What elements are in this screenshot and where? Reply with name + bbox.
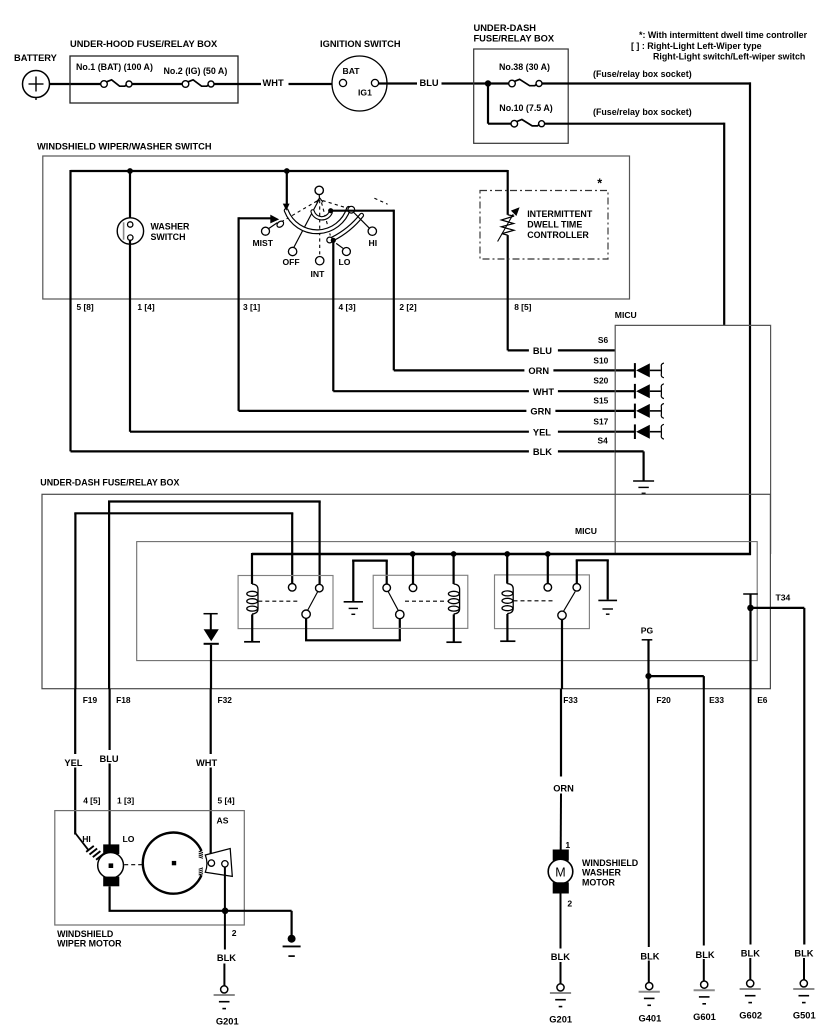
wire end wedge (bus feed) (283, 204, 290, 211)
svg-text:YEL: YEL (533, 427, 551, 437)
wire E6 to G602 (BLK) (749, 689, 751, 980)
svg-text:WASHER: WASHER (582, 868, 622, 878)
wire branch to G501 (803, 958, 805, 980)
svg-text:2 [2]: 2 [2] (399, 302, 416, 312)
svg-text:WHT: WHT (533, 387, 554, 397)
svg-text:No.2 (IG) (50 A): No.2 (IG) (50 A) (164, 66, 228, 76)
svg-text:BLU: BLU (100, 754, 119, 764)
wire PG to F20 (647, 676, 649, 689)
wire fuse No.2 to ignition switch (214, 83, 261, 85)
wire YEL from switch pin to MICU (130, 299, 615, 432)
svg-text:BLK: BLK (741, 949, 760, 959)
junction node BLU split (485, 80, 491, 86)
svg-text:MICU: MICU (575, 526, 597, 536)
svg-text:G401: G401 (639, 1013, 662, 1023)
terminal T34 (743, 592, 790, 608)
diode at S10 (615, 363, 664, 378)
svg-text:FUSE/RELAY BOX: FUSE/RELAY BOX (474, 34, 555, 44)
terminal HI (354, 213, 377, 249)
svg-text:MIST: MIST (253, 238, 274, 248)
under-dash fuse/relay box (top) (474, 23, 569, 143)
relay 1 contact (right) (316, 584, 324, 592)
svg-text:WHT: WHT (196, 758, 217, 768)
wire F32 to wiper motor AS (WHT) (210, 689, 212, 860)
svg-text:BLU: BLU (420, 78, 439, 88)
LO contact (327, 237, 333, 243)
svg-text:M: M (555, 865, 565, 879)
wiper motor AS contact plate (205, 849, 232, 877)
wiper switch HI-LO bridge contact (arc) (333, 215, 362, 239)
washer switch SW2 (117, 218, 190, 244)
svg-text:CONTROLLER: CONTROLLER (527, 230, 589, 240)
svg-text:WINDSHIELD: WINDSHIELD (57, 929, 114, 939)
svg-text:G201: G201 (216, 1017, 239, 1027)
battery B1 (14, 53, 58, 100)
svg-text:*: * (597, 177, 602, 191)
svg-text:1 [3]: 1 [3] (117, 795, 134, 805)
wire pin 5 [8] column (69, 170, 71, 299)
relay 1 contact (common) (302, 610, 310, 618)
windshield washer motor M2 (548, 850, 573, 894)
MICU box (615, 325, 770, 554)
dashed shaft link (124, 864, 143, 866)
svg-text:No.10 (7.5 A): No.10 (7.5 A) (499, 103, 552, 113)
junction HI row (328, 208, 333, 213)
svg-text:S17: S17 (593, 416, 608, 426)
svg-text:8 [5]: 8 [5] (514, 302, 531, 312)
wire junction down to fuse No.10 (487, 84, 489, 124)
relay 1 coil (244, 553, 260, 642)
ground G401 (646, 983, 653, 990)
terminal PG (641, 626, 654, 677)
svg-text:INT: INT (311, 269, 326, 279)
svg-text:1: 1 (565, 840, 570, 850)
relay 2 contact (top left) (383, 584, 391, 592)
bus wire inside switch box (71, 170, 508, 172)
wire fuse No.1 to fuse No.2 (132, 83, 182, 85)
wire pin 8 [5] column (507, 170, 509, 215)
wiper motor armature (98, 844, 124, 886)
wiper switch main bridge contact (arc) (286, 208, 348, 231)
wire fuse No.38 to bus (right vertical) (542, 82, 751, 84)
svg-text:BAT: BAT (343, 66, 361, 76)
wire bus to wiper switch arc (286, 171, 288, 207)
terminal OFF (283, 247, 300, 267)
wire end wedge (pin 3 feed) (270, 215, 279, 224)
svg-text:S15: S15 (593, 396, 608, 406)
svg-text:S6: S6 (598, 335, 609, 345)
svg-text:WASHER: WASHER (151, 222, 191, 232)
svg-text:4 [5]: 4 [5] (83, 795, 100, 805)
relay 3 dashed link (514, 600, 554, 602)
svg-text:HI: HI (369, 238, 378, 248)
junction T34 (747, 605, 754, 612)
relay 3 (hi-lo relay) (495, 575, 590, 629)
wire WHT continues (289, 83, 340, 85)
variable resistor (dwell controller) (498, 207, 520, 241)
wire washer switch to pin 1 [4] (129, 240, 131, 299)
terminal INT (311, 257, 326, 279)
windshield wiper motor M1 (55, 811, 245, 949)
wiper switch rotary SW1 (315, 186, 323, 202)
relay 3 blade (563, 592, 575, 612)
wire BLU continues (442, 82, 509, 84)
ground G602 (747, 980, 754, 987)
relay 1 blade (308, 592, 318, 611)
wire F33 to washer motor (ORN) (560, 689, 562, 850)
wire WHT from switch pin to MICU (333, 299, 615, 391)
junction pin 2 (222, 908, 229, 915)
fuse No.1 (BAT) (100 A) (76, 62, 153, 87)
relay 1 contact (middle) (288, 584, 296, 592)
HI contact (348, 206, 355, 213)
terminal LO (336, 243, 351, 267)
wire F20 to G401 (BLK) (648, 689, 650, 983)
wire ORN from switch pin to MICU (394, 299, 615, 370)
wire battery to under-hood box (50, 83, 102, 85)
relay 3 contact (right) (573, 584, 581, 592)
fuse No.38 (30 A) (499, 62, 550, 87)
svg-text:WHT: WHT (263, 78, 284, 88)
svg-text:ORN: ORN (553, 784, 574, 794)
svg-text:5 [8]: 5 [8] (77, 302, 94, 312)
svg-text:4 [3]: 4 [3] (339, 302, 356, 312)
svg-text:5 [4]: 5 [4] (218, 795, 235, 805)
terminal (diode feed) (204, 614, 218, 630)
wire relay 3 (top right contact) to ground (576, 560, 609, 599)
wire AS contact to pin 2 (224, 867, 226, 911)
fuse No.2 (IG) (50 A) (164, 66, 228, 87)
wire HI to brush (75, 833, 88, 850)
wiper motor cam plate (143, 832, 203, 893)
diode at S17 (615, 424, 664, 439)
fuse No.10 (7.5 A) (499, 103, 552, 127)
svg-text:BLK: BLK (696, 950, 715, 960)
relay 3 contact (middle) (544, 584, 552, 592)
wiper switch inner bridge contact (small arc) (313, 211, 331, 218)
ground (MICU internal) (633, 480, 654, 482)
ground (wiper motor body) (283, 935, 301, 956)
svg-text:LO: LO (123, 834, 135, 844)
svg-text:F19: F19 (83, 695, 98, 705)
relay 2 (washer relay) (373, 575, 468, 628)
svg-text:Right-Light switch/Left-wiper: Right-Light switch/Left-wiper switch (653, 52, 805, 62)
svg-text:No.38 (30 A): No.38 (30 A) (499, 62, 550, 72)
svg-text:3 [1]: 3 [1] (243, 302, 260, 312)
svg-text:2: 2 (232, 928, 237, 938)
svg-text:SWITCH: SWITCH (151, 232, 186, 242)
wire T34 to G501 branch (751, 608, 805, 945)
wiper switch dashed ray to INT (319, 200, 321, 256)
junction bus to relay 3 coil (504, 551, 510, 557)
ground (between relay 1 and relay 2) (344, 560, 388, 615)
wiper motor HI brush (hatched) (86, 846, 104, 860)
wire washer motor to G201 (BLK) (560, 894, 562, 985)
svg-text:LO: LO (339, 257, 351, 267)
svg-text:S4: S4 (598, 436, 609, 446)
svg-text:E33: E33 (709, 695, 724, 705)
wire pin 2 to G201 (BLK) (223, 911, 226, 986)
svg-text:T34: T34 (776, 592, 791, 602)
svg-text:WIPER MOTOR: WIPER MOTOR (57, 938, 122, 948)
svg-text:MOTOR: MOTOR (582, 877, 615, 887)
svg-text:S10: S10 (593, 356, 608, 366)
intermittent dwell time controller (480, 191, 608, 260)
svg-text:GRN: GRN (530, 407, 551, 417)
svg-text:F18: F18 (116, 695, 131, 705)
svg-text:F20: F20 (656, 695, 671, 705)
wire relay 1 common to relay 2 common (305, 618, 401, 640)
label windshield washer motor (582, 858, 639, 887)
svg-text:BLK: BLK (217, 953, 236, 963)
wire BLU from switch pin to MICU (508, 299, 616, 350)
relay 3 coil (500, 554, 515, 641)
wire PG to E33 (649, 676, 704, 689)
ignition switch (320, 39, 401, 111)
svg-text:1 [4]: 1 [4] (137, 302, 154, 312)
under-hood fuse/relay box (70, 39, 238, 103)
svg-text:WINDSHIELD WIPER/WASHER SWITCH: WINDSHIELD WIPER/WASHER SWITCH (37, 142, 212, 152)
svg-text:WINDSHIELD: WINDSHIELD (582, 858, 639, 868)
svg-text:G201: G201 (549, 1015, 572, 1025)
svg-text:IG1: IG1 (358, 88, 372, 98)
svg-text:(Fuse/relay box socket): (Fuse/relay box socket) (593, 69, 692, 79)
MICU relay sub-box (137, 542, 758, 661)
svg-text:BLK: BLK (533, 447, 552, 457)
wire LO brush to pin 2 and ground (109, 886, 292, 935)
wire pin 1 [4] column upper (129, 171, 131, 222)
svg-text:BLK: BLK (794, 949, 813, 959)
wire pin 3 [1] column (239, 217, 271, 219)
svg-text:UNDER-DASH FUSE/RELAY BOX: UNDER-DASH FUSE/RELAY BOX (40, 477, 179, 487)
wire BLK to internal ground (615, 451, 643, 481)
svg-text:INTERMITTENT: INTERMITTENT (527, 209, 593, 219)
svg-text:*: With intermittent dwell tim: *: With intermittent dwell time controll… (639, 30, 808, 40)
ground G601 (701, 981, 708, 988)
relay 3 contact (common) (558, 611, 566, 619)
wire bus to relay 2 (top middle contact) (412, 554, 414, 584)
svg-text:UNDER-HOOD FUSE/RELAY BOX: UNDER-HOOD FUSE/RELAY BOX (70, 39, 218, 49)
relay 2 blade (388, 592, 398, 611)
ground G201 (wiper motor) (221, 986, 228, 993)
wire diode to F32 (210, 645, 212, 689)
diode D1 (wiper park) (204, 629, 219, 644)
svg-text:BLK: BLK (640, 952, 659, 962)
wire bus to relay 3 (top middle contact) (547, 554, 549, 584)
svg-text:BLU: BLU (533, 346, 552, 356)
MIST contact (276, 220, 285, 229)
diode at S20 (615, 384, 664, 399)
wire E33 to G601 (BLK) (703, 689, 705, 981)
windshield wiper/washer switch box (37, 142, 630, 300)
svg-text:BLK: BLK (551, 952, 570, 962)
wire F19 to relay 1 (top middle contact) (74, 513, 293, 689)
wire BLK from switch pin to MICU (71, 299, 616, 451)
svg-text:AS: AS (217, 816, 229, 826)
wire F18 to relay 1 (top right contact) (108, 502, 321, 690)
wiper switch dashed tick outer HI (374, 198, 387, 204)
svg-text:UNDER-DASH: UNDER-DASH (474, 23, 537, 33)
svg-text:MICU: MICU (615, 310, 637, 320)
svg-text:F33: F33 (563, 695, 578, 705)
junction bus to relay 2 coil (451, 551, 457, 557)
wire IG1 to under-dash box (379, 82, 417, 84)
junction LO (331, 238, 336, 243)
relay 1 (wiper relay) (238, 576, 333, 629)
relay 2 coil (446, 554, 461, 642)
relay 2 dashed link (405, 600, 448, 602)
svg-text:G501: G501 (793, 1011, 816, 1021)
relay 1 dashed link (258, 600, 299, 602)
diode at S15 (615, 404, 664, 419)
wire F19 to wiper motor HI (YEL) (74, 689, 76, 835)
svg-text:[ ] : Right-Light Left-Wiper t: [ ] : Right-Light Left-Wiper type (631, 41, 762, 51)
relay 2 contact (middle) (409, 584, 417, 592)
svg-text:PG: PG (641, 626, 654, 636)
ground G201 (washer motor) (557, 984, 564, 991)
junction washer switch column (127, 168, 133, 174)
wire pin 4 [3] column (332, 240, 334, 299)
svg-text:S20: S20 (593, 376, 608, 386)
svg-text:ORN: ORN (528, 366, 549, 376)
junction bus to relay 2 contact (410, 551, 416, 557)
svg-text:G602: G602 (739, 1011, 762, 1021)
wire fuse No.10 to MICU top (545, 123, 724, 125)
svg-text:F32: F32 (218, 695, 233, 705)
wire pin 2 [2] column (333, 210, 394, 212)
relay bus wire (No.38 feed) (252, 553, 751, 555)
junction bus to relay 3 contact (545, 551, 551, 557)
svg-text:BATTERY: BATTERY (14, 53, 58, 63)
svg-text:IGNITION SWITCH: IGNITION SWITCH (320, 39, 401, 49)
svg-text:No.1 (BAT) (100 A): No.1 (BAT) (100 A) (76, 62, 153, 72)
wire T34 to E6 (749, 608, 751, 689)
ground G501 (800, 980, 807, 987)
ground (right of relay 3) (598, 599, 617, 601)
wiper switch dashed ray to LO (322, 203, 331, 236)
junction PG split (645, 673, 651, 679)
junction wiper switch feed (284, 168, 290, 174)
svg-text:G601: G601 (693, 1012, 716, 1022)
svg-text:2: 2 (567, 899, 572, 909)
svg-text:DWELL TIME: DWELL TIME (527, 220, 582, 230)
wiper switch dashed ray to HI (323, 201, 349, 209)
wire F18 to wiper motor LO (BLU) (108, 689, 110, 845)
under-dash fuse/relay box (main) (40, 477, 770, 688)
relay 2 contact (common) (396, 610, 404, 618)
svg-text:YEL: YEL (64, 758, 82, 768)
svg-text:(Fuse/relay box socket): (Fuse/relay box socket) (593, 107, 692, 117)
terminal MIST (253, 223, 278, 248)
svg-text:OFF: OFF (283, 257, 300, 267)
svg-text:E6: E6 (757, 695, 768, 705)
wire relay 3 common to F33 (561, 620, 563, 690)
wiper switch blade (to OFF) (294, 199, 320, 248)
wire GRN from switch pin to MICU (239, 299, 616, 411)
wiper switch dashed ray to MIST (282, 201, 317, 222)
